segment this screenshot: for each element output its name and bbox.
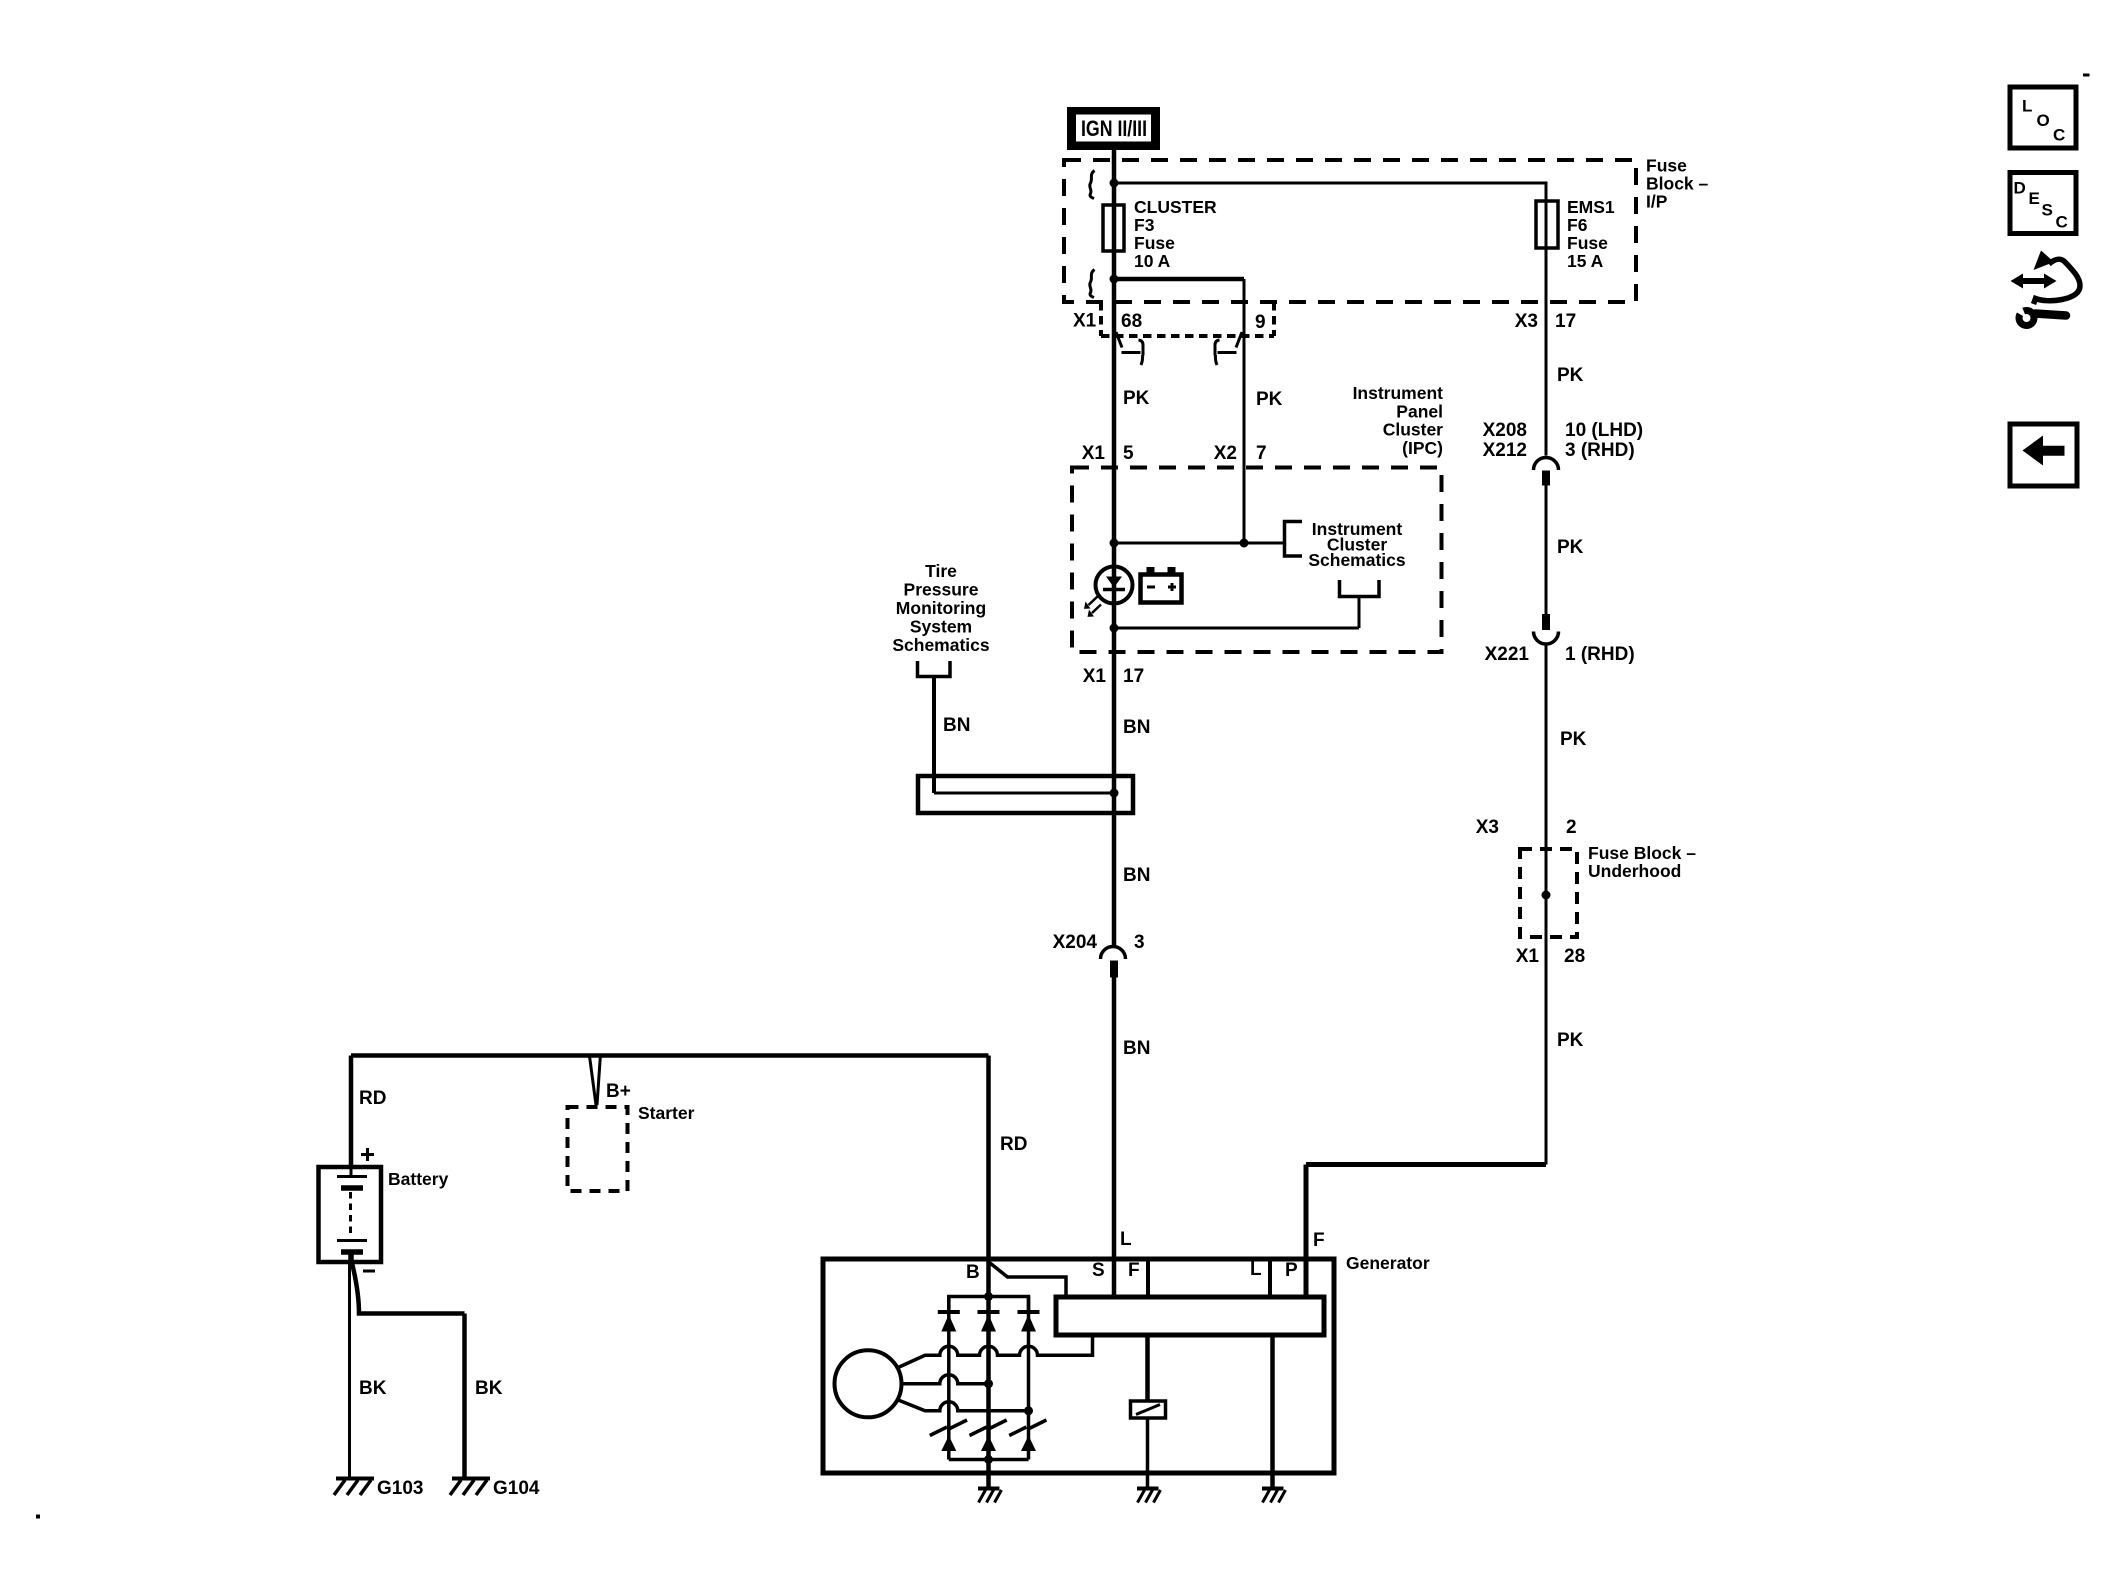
- svg-text:L: L: [1250, 1259, 1262, 1280]
- svg-text:7: 7: [1256, 443, 1267, 464]
- node: dot on top bus: [984, 1292, 993, 1301]
- svg-text:O: O: [2037, 111, 2050, 130]
- terminal cell dividers: [1148, 1259, 1270, 1297]
- connector X221: [1542, 614, 1550, 630]
- DESC nav box: [2010, 173, 2076, 234]
- svg-text:X208: X208: [1483, 420, 1527, 441]
- svg-text:B: B: [966, 1262, 980, 1283]
- Tire Pressure Monitoring System Schematics label: [892, 561, 990, 655]
- wire to instrument cluster bracket: [1114, 542, 1285, 545]
- svg-text:Fuse: Fuse: [1134, 233, 1175, 253]
- svg-text:10 (LHD): 10 (LHD): [1565, 420, 1643, 441]
- ground (generator P): [1262, 1489, 1286, 1503]
- svg-text:Panel: Panel: [1396, 402, 1443, 422]
- svg-text:F6: F6: [1567, 215, 1588, 235]
- svg-text:BN: BN: [1123, 717, 1150, 738]
- ground G104: [450, 1478, 540, 1499]
- svg-text:15 A: 15 A: [1567, 251, 1604, 271]
- fuse block I/P dashed outline: [1064, 160, 1636, 302]
- power feed label IGN II/III: [1067, 107, 1160, 150]
- svg-text:EMS1: EMS1: [1567, 197, 1615, 217]
- svg-text:17: 17: [1555, 311, 1576, 332]
- battery plus mark: [361, 1148, 374, 1161]
- svg-text:Generator: Generator: [1346, 1253, 1430, 1273]
- svg-text:I/P: I/P: [1646, 192, 1668, 212]
- svg-text:(IPC): (IPC): [1402, 438, 1443, 458]
- bracket to Instrument Cluster Schematics: [1285, 522, 1303, 557]
- wire from schematics bracket to splice: [1358, 597, 1361, 629]
- svg-text:L: L: [1120, 1229, 1132, 1250]
- svg-text:Pressure: Pressure: [904, 580, 979, 600]
- svg-text:BN: BN: [1123, 1038, 1150, 1059]
- svg-text:C: C: [2056, 213, 2068, 232]
- regulator P drop: [1270, 1335, 1275, 1489]
- generator outline: [823, 1259, 1334, 1473]
- svg-text:BN: BN: [1123, 865, 1150, 886]
- svg-text:RD: RD: [359, 1088, 386, 1109]
- svg-text:5: 5: [1123, 443, 1134, 464]
- stator phase middle: [902, 1375, 989, 1384]
- svg-text:RD: RD: [1000, 1134, 1027, 1155]
- upper diode 2: [978, 1312, 1000, 1332]
- zener slashes column 2: [970, 1420, 1007, 1436]
- svg-text:17: 17: [1123, 666, 1144, 687]
- fuse F3 (CLUSTER 10 A): [1103, 205, 1124, 251]
- svg-text:System: System: [910, 617, 972, 637]
- splice pack: [918, 776, 1133, 813]
- svg-text:Block –: Block –: [1646, 174, 1709, 194]
- svg-text:X221: X221: [1485, 644, 1530, 665]
- svg-text:X1: X1: [1073, 311, 1097, 332]
- wire branch to EMS1 fuse: [1114, 183, 1546, 201]
- B+ tap to starter: [590, 1054, 601, 1105]
- node: X2 wire end dot: [1240, 539, 1249, 548]
- wire RD battery positive bus: [351, 1053, 989, 1058]
- svg-text:Fuse: Fuse: [1567, 233, 1608, 253]
- connector X1 pins 68/9 dashed strip: [1101, 302, 1274, 336]
- zener slashes column 1: [930, 1420, 967, 1436]
- upper diode 1: [938, 1312, 960, 1332]
- wire TPMS to splice: [932, 677, 936, 794]
- stray mark bottom left: [36, 1515, 40, 1519]
- terminal hook at pin 9: [1215, 332, 1242, 365]
- svg-text:G104: G104: [493, 1478, 540, 1499]
- wire EMS1 down to X208: [1545, 201, 1548, 456]
- wire: left column through IPC: [1112, 336, 1117, 947]
- svg-text:X3: X3: [1515, 311, 1538, 332]
- node: junction dot at pin 68 branch: [1110, 275, 1119, 284]
- svg-text:G103: G103: [377, 1478, 423, 1499]
- stator phase bottom: [897, 1400, 1029, 1411]
- svg-text:X1: X1: [1082, 443, 1106, 464]
- ground (generator B): [978, 1489, 1002, 1503]
- back arrow nav box: [2010, 424, 2077, 486]
- terminal squiggle below fuse F3: [1090, 270, 1095, 298]
- battery telltale icon: [1141, 567, 1182, 603]
- svg-text:X212: X212: [1483, 440, 1527, 461]
- battery minus mark: [363, 1270, 375, 1273]
- svg-text:Battery: Battery: [388, 1169, 449, 1189]
- ground G103: [334, 1478, 423, 1499]
- wire RD down to generator B: [986, 1056, 991, 1489]
- upper diode 3: [1018, 1312, 1040, 1332]
- stray mark top right: [2083, 74, 2090, 77]
- rectifier columns: [949, 1297, 1029, 1460]
- svg-text:Tire: Tire: [925, 561, 957, 581]
- svg-text:Fuse: Fuse: [1646, 156, 1687, 176]
- lower diode 1: [941, 1436, 956, 1452]
- svg-text:Schematics: Schematics: [892, 635, 990, 655]
- svg-text:Instrument: Instrument: [1353, 383, 1444, 403]
- svg-text:D: D: [2014, 179, 2026, 198]
- ground (generator L): [1137, 1489, 1161, 1503]
- svg-text:S: S: [1092, 1260, 1105, 1281]
- svg-text:F: F: [1128, 1260, 1140, 1281]
- svg-text:C: C: [2053, 126, 2065, 145]
- svg-text:2: 2: [1566, 817, 1577, 838]
- fuse EMS1 (15 A): [1536, 201, 1558, 248]
- svg-text:B+: B+: [606, 1081, 631, 1102]
- svg-text:PK: PK: [1560, 729, 1587, 750]
- rotor circle: [835, 1350, 902, 1417]
- wire IGN feed into fuse block: [1112, 150, 1117, 336]
- svg-text:X1: X1: [1516, 946, 1540, 967]
- svg-text:10 A: 10 A: [1134, 251, 1171, 271]
- node: junction dot at F3/EMS1 branch: [1110, 179, 1119, 188]
- battery: [319, 1167, 382, 1262]
- svg-text:Fuse Block –: Fuse Block –: [1588, 843, 1696, 863]
- svg-text:68: 68: [1121, 311, 1142, 332]
- svg-text:Underhood: Underhood: [1588, 861, 1681, 881]
- svg-text:1 (RHD): 1 (RHD): [1565, 644, 1635, 665]
- svg-text:BN: BN: [943, 715, 970, 736]
- wire PK between connectors: [1545, 486, 1548, 615]
- svg-text:3: 3: [1134, 932, 1145, 953]
- svg-text:S: S: [2042, 201, 2053, 220]
- node: splice junction dot: [1110, 789, 1119, 798]
- svg-text:3 (RHD): 3 (RHD): [1565, 440, 1635, 461]
- voltage regulator block: [1056, 1297, 1324, 1335]
- terminal squiggle above fuse F3: [1090, 171, 1095, 199]
- svg-text:P: P: [1285, 1260, 1298, 1281]
- svg-text:28: 28: [1564, 946, 1585, 967]
- svg-text:F: F: [1313, 1230, 1325, 1251]
- svg-text:Starter: Starter: [638, 1103, 695, 1123]
- Instrument Panel Cluster (IPC) dashed outline: [1072, 468, 1442, 653]
- svg-text:Monitoring: Monitoring: [896, 598, 986, 618]
- starter dashed outline: [568, 1107, 628, 1191]
- rectifier top bus: [949, 1297, 1029, 1313]
- svg-text:PK: PK: [1557, 1030, 1584, 1051]
- bracket under Schematics text: [1340, 580, 1380, 597]
- bracket under TPMS text: [918, 661, 951, 677]
- lower diode 2: [981, 1436, 996, 1452]
- svg-text:BK: BK: [359, 1378, 387, 1399]
- svg-text:PK: PK: [1557, 537, 1584, 558]
- LOC nav box: [2010, 87, 2076, 148]
- stator phase top with hops to regulator: [897, 1335, 1093, 1368]
- svg-text:BK: BK: [475, 1378, 503, 1399]
- fuse block underhood dashed outline: [1520, 849, 1577, 937]
- rectifier bottom bus: [949, 1458, 1029, 1462]
- svg-text:CLUSTER: CLUSTER: [1134, 197, 1217, 217]
- node: junction dot below LED: [1110, 624, 1119, 633]
- svg-text:PK: PK: [1123, 388, 1150, 409]
- wire PK to generator F: [1306, 1162, 1546, 1167]
- svg-text:F3: F3: [1134, 215, 1155, 235]
- lower diode 3: [1021, 1436, 1036, 1452]
- regulator L drop with sense resistor: [1145, 1335, 1150, 1401]
- indicator LED (charge warning lamp): [1084, 567, 1133, 617]
- svg-text:X2: X2: [1214, 443, 1237, 464]
- svg-text:Schematics: Schematics: [1308, 550, 1406, 570]
- svg-text:Cluster: Cluster: [1383, 420, 1443, 440]
- zener slashes column 3: [1009, 1420, 1046, 1436]
- svg-text:9: 9: [1255, 312, 1266, 333]
- node: dot on bottom bus: [984, 1455, 993, 1464]
- node: junction dot inside IPC: [1110, 539, 1119, 548]
- wire PK to underhood fuse block: [1545, 644, 1548, 1165]
- svg-text:X204: X204: [1053, 932, 1098, 953]
- svg-text:X1: X1: [1083, 666, 1107, 687]
- wire BN to generator L: [1112, 978, 1117, 1298]
- node: junction dot in underhood block: [1542, 891, 1551, 900]
- svg-text:E: E: [2029, 189, 2040, 208]
- diagnostic jump icon (arrows and wrench): [2011, 251, 2081, 326]
- svg-text:X3: X3: [1476, 817, 1499, 838]
- svg-text:PK: PK: [1256, 389, 1283, 410]
- svg-text:L: L: [2022, 97, 2032, 116]
- terminal hook at pin 68: [1116, 332, 1143, 365]
- wire BK battery branch to G104: [352, 1263, 465, 1314]
- wire BK battery to G103: [348, 1262, 351, 1479]
- svg-text:IGN II/III: IGN II/III: [1081, 116, 1147, 141]
- wire branch to pin 9: [1114, 277, 1244, 282]
- svg-text:PK: PK: [1557, 365, 1584, 386]
- B tap to regulator: [990, 1263, 1066, 1297]
